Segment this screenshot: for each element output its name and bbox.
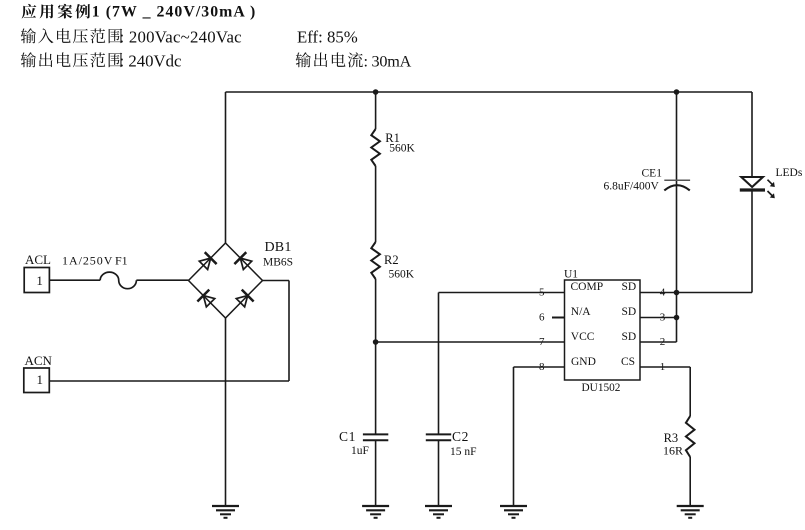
terminal ACN box xyxy=(24,368,50,393)
wire pin8 GND left and down to ground xyxy=(514,366,565,368)
wire top rail xyxy=(226,91,753,93)
diode D-UL (left vertex to top) xyxy=(198,252,217,271)
svg-text:C1: C1 xyxy=(339,429,356,444)
svg-text:560K: 560K xyxy=(389,269,415,281)
svg-text:: 200Vac~240Vac: : 200Vac~240Vac xyxy=(120,27,242,46)
svg-text:N/A: N/A xyxy=(571,306,592,318)
svg-text:16R: 16R xyxy=(663,443,683,457)
wire pin1 CS right and down to R3 xyxy=(640,366,690,368)
wire ACN to bridge right branch xyxy=(49,380,289,382)
svg-text:SD: SD xyxy=(622,331,637,343)
svg-text:LEDs: LEDs xyxy=(776,167,803,179)
node junction top rail / R1 branch xyxy=(373,89,379,95)
svg-text:GND: GND xyxy=(571,356,596,368)
wire pin4 SD to LED branch xyxy=(640,292,752,294)
svg-text:6.8uF/400V: 6.8uF/400V xyxy=(604,181,660,193)
wire C2 branch down xyxy=(438,293,440,434)
wire R2 to VCC node xyxy=(375,279,377,342)
svg-text:: 30mA: : 30mA xyxy=(364,52,412,70)
wire VCC node down to C1 xyxy=(375,342,377,434)
node junction CE1 line / pin3 xyxy=(674,315,680,321)
svg-text:COMP: COMP xyxy=(571,281,604,293)
diode D-UR (right vertex to top) xyxy=(234,252,253,271)
ground (R3) xyxy=(677,505,704,507)
ground (pin8) xyxy=(500,505,527,507)
line: 输入电压范围: 200Vac~240Vac xyxy=(21,28,36,43)
resistor R1 xyxy=(371,129,380,166)
ground (C2) xyxy=(425,505,452,507)
title text 应用案例 1 (7W _ 240V/30mA ) xyxy=(22,4,37,19)
svg-text:U1: U1 xyxy=(564,269,578,281)
svg-text:SD: SD xyxy=(622,281,637,293)
svg-text:6: 6 xyxy=(539,312,545,324)
svg-text:1: 1 xyxy=(36,273,43,288)
node junction R2 / VCC / C1 xyxy=(373,339,379,345)
wire pin7 VCC to R2 node xyxy=(376,341,565,343)
wire C2 to ground xyxy=(438,441,440,506)
wire R1 to R2 xyxy=(375,166,377,242)
svg-text:DB1: DB1 xyxy=(265,240,292,255)
wire pin5 COMP to C2 branch xyxy=(439,292,565,294)
LED D1 triangle xyxy=(741,177,763,187)
wire bridge top vertex to top rail xyxy=(225,92,227,243)
ground (C1) xyxy=(362,505,389,507)
svg-text:CS: CS xyxy=(621,356,635,368)
svg-text:VCC: VCC xyxy=(571,331,595,343)
svg-text:CE1: CE1 xyxy=(642,167,663,179)
wire fuse to bridge left vertex xyxy=(136,279,188,281)
svg-text:15 nF: 15 nF xyxy=(450,446,477,458)
wire pin6 N/A stub xyxy=(552,317,565,319)
svg-text:SD: SD xyxy=(622,306,637,318)
bridge rectifier DB1 diamond xyxy=(189,243,263,318)
capacitor C2 xyxy=(426,433,451,435)
svg-text:560K: 560K xyxy=(389,143,415,155)
wire ACL to fuse xyxy=(49,279,100,281)
svg-text:1uF: 1uF xyxy=(351,445,369,457)
wire pin2 SD to CE1 line xyxy=(640,341,677,343)
op-amp U1 DU1502 box xyxy=(565,280,641,380)
wire bridge bottom vertex to ground xyxy=(225,318,227,506)
wire LED branch top xyxy=(751,92,753,177)
svg-text:1: 1 xyxy=(37,372,44,387)
wire C1 to ground xyxy=(375,441,377,506)
svg-text:C2: C2 xyxy=(452,429,469,444)
svg-text:1 (7W _ 240V/30mA ): 1 (7W _ 240V/30mA ) xyxy=(92,4,256,21)
svg-text:DU1502: DU1502 xyxy=(582,382,621,394)
svg-text:ACL: ACL xyxy=(25,252,51,267)
wire rail to R1 xyxy=(375,92,377,129)
svg-text:: 240Vdc: : 240Vdc xyxy=(120,51,182,70)
LED emission arrow 2 xyxy=(768,191,775,198)
diode D-LL (bottom vertex to left) xyxy=(197,290,216,309)
terminal ACL box xyxy=(24,268,49,293)
LED cathode bar xyxy=(740,188,765,191)
svg-text:R2: R2 xyxy=(384,253,399,267)
resistor R2 xyxy=(371,242,380,279)
capacitor CE1 (polarized) xyxy=(664,179,690,181)
svg-text:ACN: ACN xyxy=(25,353,53,368)
line: 输出电流: 30mA xyxy=(296,52,311,67)
ground (bridge) xyxy=(212,505,239,507)
svg-text:1A/250V: 1A/250V xyxy=(62,254,113,268)
wire R3 to ground xyxy=(689,457,691,506)
line: 输出电压范围: 240Vdc xyxy=(21,52,36,67)
fuse F1 xyxy=(100,272,136,289)
node junction top rail / CE1 branch xyxy=(674,89,680,95)
svg-text:Eff: 85%: Eff: 85% xyxy=(297,27,358,46)
wire LED to pin4 row xyxy=(751,192,753,293)
diode D-LR (bottom vertex to right) xyxy=(235,290,254,309)
wire CE1 branch (top rail to pin2 row) xyxy=(676,92,678,342)
svg-text:F1: F1 xyxy=(115,254,128,268)
resistor R3 xyxy=(686,416,695,457)
wire pin3 SD to CE1 line xyxy=(640,317,677,319)
node junction CE1 line / pin4 xyxy=(674,290,680,296)
svg-text:MB6S: MB6S xyxy=(263,256,293,268)
LED emission arrow 1 xyxy=(768,180,775,187)
capacitor C1 xyxy=(363,433,388,435)
wire bridge right vertex down to ACN wire xyxy=(263,280,290,282)
